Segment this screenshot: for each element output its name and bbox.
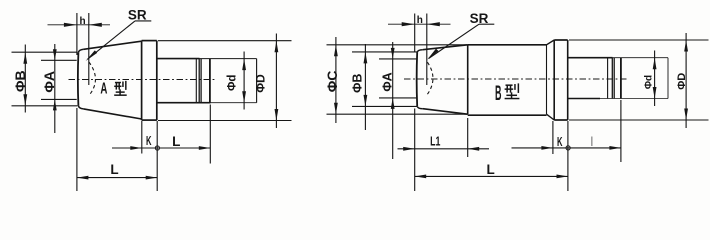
part B groove chamfer line: [607, 58, 609, 99]
dimension phid arrow top: [242, 59, 246, 71]
dimension phiA right arrow top: [391, 48, 395, 59]
SR leader arrowhead: [86, 50, 98, 61]
extension line collar right down: [567, 121, 569, 191]
dimension L mid right arrow: [609, 146, 621, 150]
part B collar left edge: [553, 40, 555, 120]
part A groove right wall: [209, 59, 211, 103]
svg-text:ΦA: ΦA: [380, 72, 394, 91]
dimension h right extension left: [414, 14, 416, 53]
dimension K right arrow: [541, 146, 553, 150]
SR right leader landing: [479, 23, 494, 25]
part B taper bottom edge: [423, 109, 468, 115]
part A shaft top edge: [157, 58, 200, 60]
dimension phiA right arrow bottom: [391, 98, 395, 109]
part B groove left wall: [611, 58, 613, 99]
dimension L bottom arrow left: [77, 176, 89, 180]
part B body bottom edge: [468, 114, 547, 116]
dimension L bottom right arrow left: [415, 175, 427, 179]
svg-text:L1: L1: [430, 135, 440, 149]
part A groove left wall inner: [200, 59, 202, 103]
part B nose front face: [416, 52, 419, 106]
dimension phiD right extension bottom: [569, 119, 709, 121]
dimension L bottom right arrow right: [557, 175, 569, 179]
part B nose top corner arc: [417, 50, 423, 53]
part B body top edge: [468, 44, 547, 46]
dimension h arrow left: [64, 23, 77, 27]
dimension phiD line: [275, 34, 277, 129]
svg-text:K: K: [557, 135, 563, 149]
label B-type kanji: [505, 84, 512, 86]
svg-text:A: A: [100, 80, 107, 97]
part A shaft end face: [256, 59, 258, 103]
part A flange top edge: [142, 40, 157, 42]
dimension h arrow right: [89, 23, 102, 27]
part B nose bottom corner arc: [417, 106, 423, 109]
part A sphere dashed arc: [89, 62, 96, 96]
dimension phid arrow bottom: [242, 91, 246, 103]
dimension phiA right extension bottom: [379, 97, 417, 99]
dimension phiD right extension top: [569, 39, 709, 41]
dimension phid right arrow bottom: [653, 87, 657, 99]
dimension phiC arrow bottom: [334, 103, 338, 115]
dimension phiD extension top: [158, 40, 292, 42]
dimension phiB line: [24, 45, 26, 113]
svg-text:ΦA: ΦA: [41, 71, 57, 93]
svg-text:h: h: [417, 15, 423, 26]
dimension phiD right arrow bottom: [684, 109, 688, 121]
shared point circle right: [566, 146, 570, 150]
dimension phiB extension top: [12, 51, 78, 53]
svg-text:SR: SR: [128, 7, 147, 22]
part B body right junction line: [546, 45, 548, 114]
dimension phiB right arrow bottom: [364, 95, 368, 107]
extension line collar left down: [552, 121, 554, 154]
svg-text:L: L: [172, 134, 180, 149]
dimension phiD arrow bottom: [275, 109, 279, 121]
part B end cylinder top edge rear: [613, 57, 669, 59]
centerline A-type axis: [69, 79, 215, 81]
dimension phid right arrow top: [653, 58, 657, 69]
faint L mark: [591, 137, 593, 147]
part B taper top edge: [423, 45, 468, 50]
dimension phiB right extension bottom: [352, 105, 417, 107]
dimension K L line: [112, 147, 210, 149]
dimension L1 line: [398, 148, 490, 150]
svg-text:ΦB: ΦB: [12, 70, 28, 92]
dimension h extension left: [76, 13, 78, 55]
dimension phiD right line: [685, 33, 687, 128]
dimension h right arrow left: [402, 22, 415, 26]
part B end cylinder bottom edge: [568, 98, 600, 100]
dimension h right arrow right: [427, 22, 440, 26]
part B groove left wall inner: [613, 58, 615, 99]
dimension phiB right line: [364, 44, 366, 130]
part B collar right edge: [567, 40, 569, 120]
SR right leader arrowhead: [427, 49, 438, 60]
dimension phiA right line: [392, 42, 394, 159]
dimension phiD right arrow top: [684, 40, 688, 52]
extension line groove down: [209, 105, 211, 164]
dimension phiC extension top: [327, 44, 468, 46]
extension line flange left down: [141, 121, 143, 154]
dimension phiA arrow top: [53, 49, 57, 60]
extension line flange right down: [156, 121, 158, 191]
dimension L1 arrow left: [403, 147, 415, 151]
part B collar bottom edge: [554, 119, 568, 121]
dimension phiB arrow top: [23, 52, 27, 64]
dimension phiC extension bottom: [327, 113, 468, 115]
svg-text:ΦD: ΦD: [254, 74, 268, 93]
dimension phid line: [243, 52, 245, 110]
part B collar chamfer top: [547, 40, 555, 45]
part A flange left edge: [141, 41, 143, 121]
dimension L mid arrow: [199, 146, 211, 150]
part A nose bottom corner arc: [78, 106, 83, 109]
label A-type kanji: [115, 82, 121, 84]
svg-text:L: L: [110, 162, 118, 177]
dimension phiD extension bottom: [158, 120, 292, 122]
svg-text:ΦB: ΦB: [351, 74, 365, 93]
dimension phiD arrow top: [275, 41, 279, 53]
svg-text:h: h: [80, 16, 86, 27]
svg-text:B: B: [495, 82, 502, 105]
dimension phiA extension bottom: [41, 98, 77, 100]
part B end cylinder top edge: [568, 57, 613, 59]
part A shaft top edge rear: [200, 58, 257, 60]
dimension K right line: [512, 147, 621, 149]
dimension h extension right: [88, 13, 90, 85]
svg-text:K: K: [146, 134, 152, 148]
dimension h line: [48, 24, 111, 26]
dimension phiC arrow top: [334, 45, 338, 57]
extension line nose down: [76, 108, 78, 191]
part A groove chamfer line: [195, 59, 197, 103]
dimension phiB right extension top: [352, 51, 417, 53]
dimension phiA line: [54, 44, 56, 133]
extension line nose right down: [414, 109, 416, 192]
svg-text:Φd: Φd: [227, 75, 239, 91]
part A shaft bottom edge rear: [211, 102, 257, 104]
part B body left edge: [467, 45, 469, 114]
part A flange right edge: [156, 41, 158, 121]
part B sphere dashed arc: [427, 62, 433, 94]
part A taper bottom edge: [84, 109, 142, 119]
part A taper top edge: [84, 41, 142, 49]
dimension phid right line: [654, 51, 656, 107]
part A shaft bottom edge: [157, 102, 211, 104]
dimension phiB extension bottom: [12, 105, 78, 107]
part B collar top edge: [554, 39, 568, 41]
svg-text:L: L: [486, 162, 494, 177]
dimension L bottom line: [77, 177, 157, 179]
dimension phiC line: [335, 37, 337, 123]
SR leader landing: [135, 20, 151, 22]
part A groove left wall: [198, 59, 200, 103]
centerline B-type axis: [404, 78, 627, 80]
svg-text:Φd: Φd: [644, 75, 655, 89]
part A nose top corner arc: [78, 49, 83, 52]
dimension phiB arrow bottom: [23, 94, 27, 106]
part B end face: [667, 58, 669, 99]
svg-text:ΦD: ΦD: [676, 73, 688, 90]
extension line body left down: [467, 118, 469, 157]
part B groove right wall: [620, 58, 622, 99]
dimension K arrow: [130, 146, 142, 150]
dimension h right line: [388, 23, 451, 25]
part A flange bottom edge: [142, 119, 157, 121]
shared point circle: [155, 146, 159, 150]
dimension L bottom right line: [415, 175, 568, 177]
dimension h right extension right: [426, 14, 428, 86]
part A nose front face: [77, 53, 80, 106]
SR leader line: [88, 21, 136, 59]
dimension phiA arrow bottom: [53, 99, 57, 110]
SR right leader line: [429, 24, 479, 58]
dimension L bottom arrow right: [146, 176, 158, 180]
part B end cylinder bottom edge rear: [600, 98, 668, 100]
svg-text:ΦC: ΦC: [324, 71, 340, 93]
dimension phiB right arrow top: [364, 52, 368, 64]
extension line groove right down: [620, 100, 622, 162]
dimension L1 arrow right: [468, 147, 480, 151]
part B collar chamfer bottom: [547, 114, 555, 120]
dimension phiA extension top: [41, 59, 77, 61]
dimension phiA right extension top: [379, 58, 417, 60]
